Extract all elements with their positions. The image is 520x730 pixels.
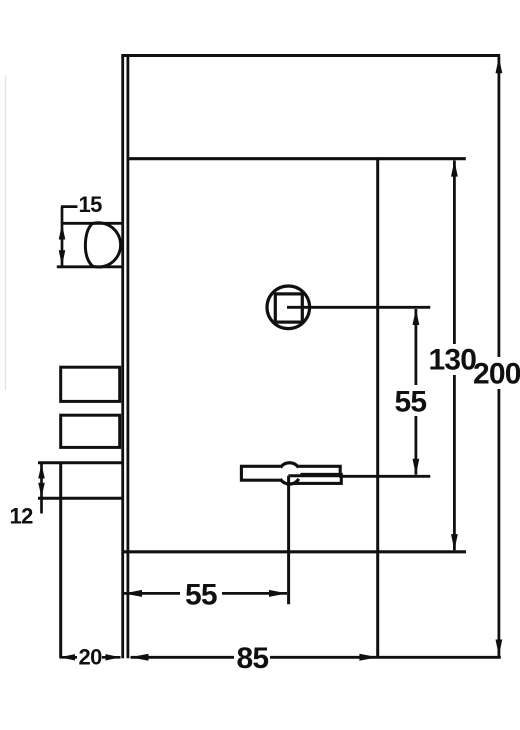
dim 130 line lower <box>453 375 456 550</box>
block 3 bottom line <box>38 497 122 500</box>
dim 55 horizontal line left <box>124 592 180 595</box>
dim 85 line left <box>131 656 235 659</box>
dim 55 horizontal arrow left <box>124 590 142 597</box>
lock body top line <box>127 157 466 160</box>
cam outer blade <box>241 466 340 480</box>
cam centre extension line <box>287 476 290 605</box>
dim 55 vertical arrow up <box>413 309 420 325</box>
cam hub blank <box>279 463 301 485</box>
dim 200 line lower <box>497 389 500 656</box>
top edge line of lock case <box>121 54 500 57</box>
cam lower blade top redraw <box>288 474 341 477</box>
cam hub top arc <box>280 463 298 468</box>
dim 55 horizontal line right <box>222 592 287 595</box>
cam reference line <box>339 475 430 478</box>
faceplate inner line <box>127 55 130 659</box>
latch channel bottom line <box>57 265 122 268</box>
dim 130 arrow down <box>451 534 458 550</box>
dim 85 line right <box>270 656 377 659</box>
dim 130 line upper <box>453 161 456 345</box>
faceplate outer line <box>121 55 124 659</box>
svg-text:85: 85 <box>237 642 269 675</box>
spindle reference line <box>287 306 430 309</box>
dim 55 horizontal arrow right <box>269 590 287 597</box>
cam lower blade <box>288 474 341 483</box>
block 3 top line <box>38 461 122 464</box>
baseline extension under 200 <box>377 656 500 659</box>
dim 85 arrow right <box>359 654 377 661</box>
svg-text:55: 55 <box>185 579 217 612</box>
lower-left body edge <box>59 499 62 659</box>
dim 12 arrow down <box>38 483 45 498</box>
dim 85 arrow left <box>130 654 148 661</box>
dim 15 arrow down <box>59 250 66 265</box>
dim 55 vertical line lower <box>414 416 417 475</box>
latch bolt head <box>85 223 120 267</box>
scan artifact left edge <box>5 75 7 390</box>
dim 15 line <box>61 207 64 266</box>
dim 130 arrow up <box>451 160 458 176</box>
dim 20 arrow left <box>60 654 75 660</box>
dim 55 vertical line upper <box>414 309 417 385</box>
dim 200 arrow up <box>496 57 503 73</box>
dim 15 bracket horizontal <box>61 205 78 208</box>
dim 12 arrow up <box>38 464 45 479</box>
spindle circle <box>267 286 310 329</box>
dim 12 line <box>40 463 43 514</box>
block 3 left edge <box>59 462 62 500</box>
deadbolt block 2 <box>61 415 120 447</box>
dim 20 arrow right <box>105 654 120 660</box>
deadbolt block 1 <box>61 367 120 401</box>
svg-text:20: 20 <box>79 645 103 670</box>
svg-text:15: 15 <box>79 192 103 217</box>
spindle square <box>275 294 302 322</box>
cam hub bottom arc <box>280 479 299 484</box>
dim 20 line left <box>60 656 77 659</box>
latch channel top line <box>61 222 121 225</box>
svg-text:130: 130 <box>429 344 477 377</box>
lock body bottom line <box>122 550 466 553</box>
dim 200 line upper <box>497 57 500 357</box>
dim 55 vertical arrow down <box>413 459 420 475</box>
svg-text:200: 200 <box>473 358 520 391</box>
dim 20 line right <box>102 656 121 659</box>
lock body right edge <box>376 157 379 658</box>
dim 15 arrow up <box>59 224 66 240</box>
svg-text:55: 55 <box>395 386 427 419</box>
dim 200 arrow down <box>496 640 503 656</box>
svg-text:12: 12 <box>10 504 34 529</box>
